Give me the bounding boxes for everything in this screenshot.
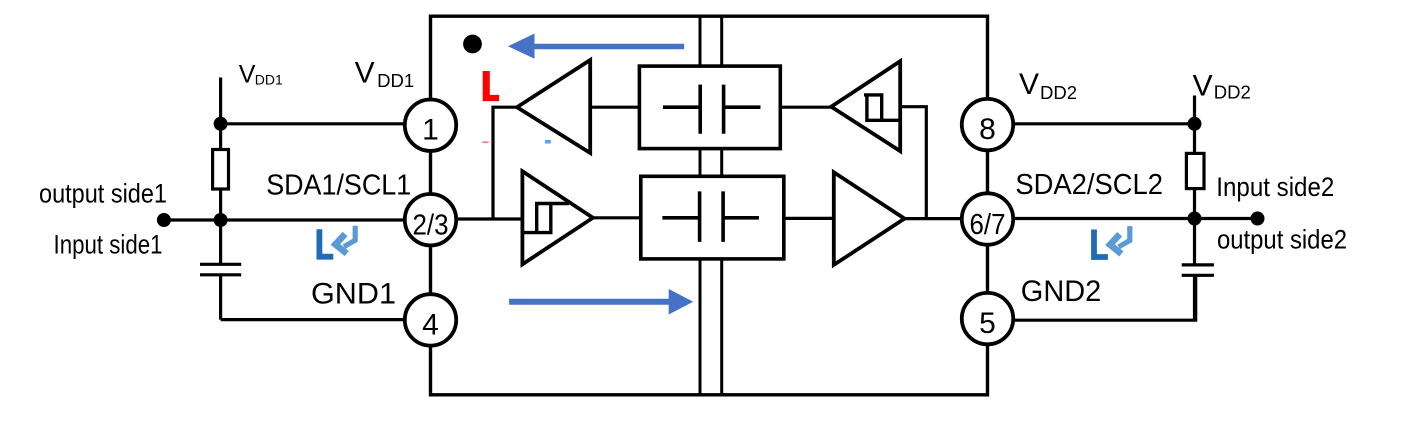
blue arrow (bottom, pointing right) [509,299,669,305]
svg-text:DD2: DD2 [1214,81,1251,102]
svg-text:DD1: DD1 [255,72,283,88]
capacitor C1 (left) [200,264,241,275]
wire: pin 6/7 to SDA2 terminal [1012,217,1258,220]
hysteresis symbol of B2 [864,95,899,120]
wire: pin 8 to VDD2 rail [1012,122,1195,125]
schmitt trigger B3 (bottom-left, pointing right) [522,171,593,264]
svg-text:Input side2: Input side2 [1216,172,1334,202]
schmitt trigger B2 (top-right, pointing left) [831,61,900,151]
svg-text:4: 4 [422,308,439,341]
right external VDD2 rail wire [1193,96,1196,321]
top isolation capacitor box [639,66,780,149]
junction dot SDA2 [1188,212,1202,226]
wire: top buffer output down to SDA1 node [493,107,517,219]
resistor R2 (right pull-up) [1186,153,1204,188]
svg-text:output side2: output side2 [1217,225,1347,255]
wire: top isolation box to schmitt B2 output [780,106,831,109]
junction dot SDA1 [214,213,228,227]
isolation barrier line right [720,16,723,395]
wire: bottom isolation box to buffer B4 input [784,217,834,220]
wire: pin2/3 to schmitt B1 input [455,217,522,220]
wire: schmitt B1 output to bottom isolation box [593,216,641,219]
wire: pin 5 to GND2 [1013,275,1196,320]
wire: SDA1 line to pin 2/3 [164,218,406,221]
bottom isolation capacitor box [641,176,784,259]
svg-text:SDA1/SCL1: SDA1/SCL1 [266,170,411,202]
pin 1 circle [405,100,456,151]
red underline artifact [482,141,488,143]
blue return mark (right) [1091,226,1130,260]
svg-text:1: 1 [422,114,439,147]
buffer B4 (bottom-right, pointing right) [834,172,905,265]
pin 4 circle [405,294,456,345]
svg-text:GND1: GND1 [311,277,396,310]
blue underline artifact [545,140,551,144]
IC body rectangle [431,16,988,395]
svg-text:SDA2/SCL2: SDA2/SCL2 [1015,169,1163,201]
capacitor C2 (right) [1182,265,1214,275]
svg-text:V: V [1019,68,1039,101]
terminal dot SDA1 [157,213,171,227]
pin 8 circle [962,99,1013,150]
svg-text:Input side1: Input side1 [54,230,163,260]
capacitor C-bottom inside box [662,191,759,242]
red letter L [483,71,499,101]
blue arrow (top, pointing left) [534,44,684,49]
capacitor C-top inside box [663,85,761,134]
buffer B1 (top-left, pointing left) [517,60,590,153]
wire: top buffer input to top isolation box [590,106,639,109]
svg-text:GND2: GND2 [1021,275,1102,308]
blue return mark (left) [317,226,356,260]
svg-text:V: V [355,56,375,89]
wire: buffer B4 output to pin 6/7 [905,217,964,220]
hysteresis symbol of B3 [522,204,569,233]
resistor R1 (left pull-up) [213,150,229,190]
svg-text:8: 8 [979,113,996,146]
pin 6/7 circle [962,193,1013,244]
wire: schmitt B2 input down to SDA2 node [900,107,926,219]
wire: GND1 to pin 4 [221,318,406,321]
svg-text:DD2: DD2 [1040,82,1077,103]
svg-text:DD1: DD1 [377,70,414,91]
svg-text:V: V [1193,69,1213,102]
svg-text:5: 5 [979,307,996,340]
svg-text:output side1: output side1 [39,178,167,208]
junction dot VDD2/pin8 [1188,117,1202,131]
svg-text:V: V [239,60,256,88]
svg-text:6/7: 6/7 [970,209,1006,241]
pin 5 circle [962,293,1013,344]
isolation barrier line left [699,16,702,395]
terminal dot SDA2 [1251,212,1265,226]
svg-text:2/3: 2/3 [413,210,449,242]
pin 2/3 circle [405,194,456,245]
wire: VDD1 rail to pin 1 [221,122,406,125]
left external VDD1 rail wire [219,78,222,320]
black indicator dot (top-left inside IC) [463,35,482,54]
junction dot VDD1/pin1 [214,117,228,131]
